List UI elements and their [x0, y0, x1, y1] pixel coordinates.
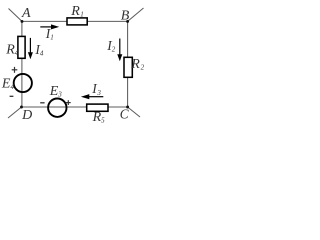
resistor R4 box — [18, 36, 25, 58]
node A junction dot — [21, 20, 24, 23]
polarity plus of E3 — [66, 100, 71, 105]
svg-text:R4: R4 — [5, 42, 19, 57]
wire stub diagonal at A — [9, 9, 23, 22]
wire stub diagonal at D — [8, 107, 22, 118]
wire D to R5 through E3 — [22, 106, 87, 108]
svg-text:C: C — [120, 106, 129, 121]
svg-text:E3: E3 — [49, 84, 63, 99]
wire R5 to C — [108, 106, 128, 108]
wire stub diagonal at B — [128, 8, 144, 21]
svg-text:E4: E4 — [1, 77, 15, 92]
node B junction dot — [126, 20, 129, 23]
resistor R1 box — [67, 18, 87, 25]
current arrow I3 — [81, 94, 103, 99]
polarity plus of E4 — [12, 67, 18, 73]
wire R1 to B — [87, 20, 128, 22]
node C junction dot — [126, 106, 129, 109]
svg-text:R1: R1 — [70, 4, 83, 19]
svg-text:R2: R2 — [130, 57, 144, 72]
node D junction dot — [20, 106, 23, 109]
current arrow I2 — [117, 39, 122, 62]
wire top-left A to R1 — [22, 20, 67, 22]
svg-text:B: B — [121, 8, 130, 23]
source E3 circle — [48, 99, 66, 117]
polarity minus of E4 — [10, 95, 14, 97]
resistor R5 box — [87, 104, 108, 111]
wire B down to R2 — [127, 21, 129, 57]
wire A down to R4 — [21, 21, 23, 36]
polarity minus of E3 — [40, 102, 44, 104]
current arrow I4 — [28, 38, 33, 59]
wire R4 to D through E4 — [21, 58, 23, 107]
svg-text:D: D — [21, 108, 32, 123]
svg-text:I4: I4 — [34, 42, 44, 58]
wire stub diagonal at C — [128, 107, 140, 117]
svg-text:I2: I2 — [106, 38, 116, 53]
svg-text:I3: I3 — [91, 81, 101, 97]
svg-text:A: A — [21, 6, 31, 21]
source E4 circle — [14, 74, 32, 92]
resistor R2 box — [124, 57, 132, 77]
wire R2 to C — [127, 77, 129, 107]
current arrow I1 — [40, 24, 59, 29]
